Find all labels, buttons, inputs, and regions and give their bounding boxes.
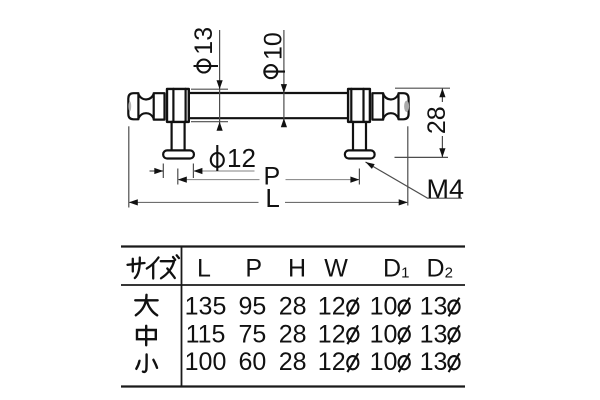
left knob neck xyxy=(138,94,153,99)
right foot xyxy=(345,150,375,158)
katakana sa xyxy=(128,263,145,265)
left ring band (phi13) xyxy=(167,89,189,122)
phi13 arrows xyxy=(217,80,223,89)
svg-text:13: 13 xyxy=(420,348,448,376)
right post xyxy=(352,122,354,151)
phi10 dimension line xyxy=(283,30,285,126)
svg-text:13: 13 xyxy=(420,293,448,321)
size table xyxy=(121,247,465,387)
28 arrows xyxy=(439,88,445,97)
right tip end-face shading xyxy=(404,101,409,112)
P arrows xyxy=(178,177,187,183)
right ring band (phi13) xyxy=(348,89,370,122)
header kana "saizu" drawn as paths xyxy=(128,255,179,278)
svg-text:100: 100 xyxy=(185,348,227,376)
phi12 dimension line xyxy=(150,170,164,172)
svg-text:12: 12 xyxy=(227,143,256,173)
katakana zu xyxy=(161,260,174,262)
M4 leader line xyxy=(366,162,463,198)
left tip shading xyxy=(128,101,131,111)
svg-text:28: 28 xyxy=(279,348,307,376)
left foot xyxy=(163,150,194,158)
P dimension line xyxy=(178,179,260,181)
table top border xyxy=(121,245,465,247)
phi12 arrows xyxy=(154,168,163,174)
phi10 arrows xyxy=(281,84,287,93)
dimension thin lines xyxy=(129,30,462,208)
svg-text:10: 10 xyxy=(260,32,288,60)
svg-text:28: 28 xyxy=(423,106,451,134)
svg-text:28: 28 xyxy=(279,320,307,348)
kanji shou (small) xyxy=(136,355,157,372)
svg-text:W: W xyxy=(324,255,348,283)
dimension labels xyxy=(190,27,464,213)
L dimension line xyxy=(129,201,259,203)
28 extension lines xyxy=(395,87,450,89)
table vertical divider xyxy=(181,247,183,387)
phi13 dimension line xyxy=(219,30,221,127)
table data rows xyxy=(185,293,460,377)
L extension lines xyxy=(128,126,130,207)
svg-text:10: 10 xyxy=(370,320,398,348)
phi13 extension lines xyxy=(191,88,228,90)
right knob neck xyxy=(383,94,398,99)
svg-text:95: 95 xyxy=(238,293,266,321)
right knob collar xyxy=(372,93,383,119)
svg-text:28: 28 xyxy=(279,293,307,321)
svg-text:75: 75 xyxy=(238,320,266,348)
svg-text:M4: M4 xyxy=(427,174,465,204)
L arrows xyxy=(129,199,138,205)
svg-text:12: 12 xyxy=(318,320,346,348)
svg-text:115: 115 xyxy=(186,320,226,348)
handle bar (main cylinder) xyxy=(189,93,348,118)
svg-text:L: L xyxy=(197,255,211,283)
svg-text:10: 10 xyxy=(370,348,398,376)
kanji dai (large) xyxy=(135,295,157,316)
kanji naka (medium) xyxy=(137,326,156,346)
svg-text:12: 12 xyxy=(318,348,346,376)
phi12 extension ticks xyxy=(162,164,164,179)
table column headers xyxy=(197,255,453,283)
katakana i xyxy=(147,258,159,269)
svg-text:L: L xyxy=(265,183,279,213)
svg-text:H: H xyxy=(288,255,306,283)
svg-text:P: P xyxy=(245,255,262,283)
P extension ticks xyxy=(177,169,179,185)
M4 leader arrow xyxy=(366,162,375,169)
left knob tip disc xyxy=(128,93,138,119)
svg-text:13: 13 xyxy=(190,27,218,55)
left knob collar xyxy=(154,93,165,119)
table bottom border xyxy=(121,385,465,387)
svg-text:135: 135 xyxy=(185,293,227,321)
svg-text:10: 10 xyxy=(370,293,398,321)
28 dimension line xyxy=(441,88,443,102)
left post xyxy=(171,122,173,151)
right knob tip disc xyxy=(399,93,409,119)
svg-text:60: 60 xyxy=(238,348,266,376)
svg-text:12: 12 xyxy=(318,293,346,321)
table header underline xyxy=(121,284,465,286)
svg-text:13: 13 xyxy=(420,320,448,348)
arrowheads xyxy=(129,80,446,205)
